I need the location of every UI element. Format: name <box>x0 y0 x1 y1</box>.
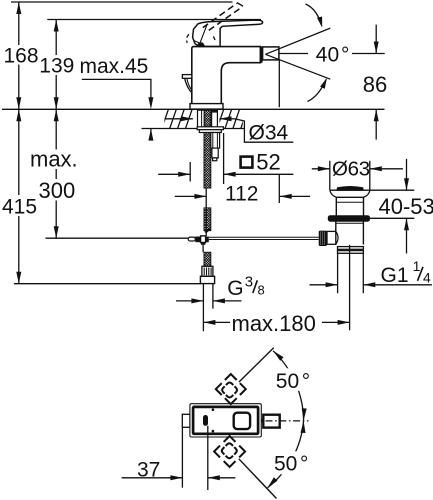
svg-text:112: 112 <box>225 182 258 205</box>
lever handle <box>193 20 263 46</box>
lever raised (dashed) <box>203 3 243 30</box>
dimension 139 / max300 line <box>55 20 57 56</box>
top view: screw dots <box>212 408 215 411</box>
drain flange <box>330 189 370 191</box>
dimension 168 line <box>18 2 20 45</box>
svg-text:Ø63: Ø63 <box>332 158 370 181</box>
top view: left tab <box>182 414 190 427</box>
drain body below seal <box>335 221 337 244</box>
reference line (139) <box>47 19 261 21</box>
hose braid lower <box>204 252 211 266</box>
svg-text:52: 52 <box>256 150 280 175</box>
hose braid mid <box>204 208 211 231</box>
arrowheads max300 <box>54 109 59 121</box>
drain body cylinder <box>335 197 337 216</box>
mounting shank hose (crosshatch) <box>204 110 211 127</box>
top view: lever pin <box>203 415 208 426</box>
svg-text:3: 3 <box>245 274 253 291</box>
fraction slashes <box>253 267 423 293</box>
dimension max180 <box>203 320 215 325</box>
deck hatching <box>146 109 247 128</box>
supply hose axis line <box>205 188 207 236</box>
top view: body outer <box>190 404 261 437</box>
50deg arc lower <box>268 421 304 488</box>
rod line below tee <box>202 245 204 252</box>
max300 bottom ref line <box>46 237 189 239</box>
deck bottom line <box>142 128 245 130</box>
svg-text:max.180: max.180 <box>232 311 316 336</box>
415 bottom ref line <box>14 283 201 285</box>
hose end fitting (ribbed) <box>202 266 213 276</box>
svg-text:168: 168 <box>4 45 39 68</box>
drain: O63 extension lines <box>329 161 331 190</box>
aerator reference line down <box>278 60 280 107</box>
horizontal pop-up rod to drain <box>209 236 319 238</box>
rod bend piece <box>205 229 210 233</box>
svg-text:40-53: 40-53 <box>379 194 433 219</box>
pop-up tee: blocks <box>195 237 200 243</box>
50deg line lower <box>239 459 277 499</box>
max.45 leader <box>82 79 151 100</box>
svg-text:Ø34: Ø34 <box>249 122 289 145</box>
svg-text:max.45: max.45 <box>80 55 149 78</box>
top view: aerator square <box>234 413 250 429</box>
pop-up tee: pill <box>188 237 195 241</box>
G3/8 tube <box>202 284 204 332</box>
nut <box>199 130 221 133</box>
pop-up rod guide blocks <box>211 133 220 149</box>
svg-text:86: 86 <box>363 72 387 97</box>
arrowheads 415 <box>16 109 21 121</box>
svg-text:415: 415 <box>2 195 37 218</box>
drain knurled knob <box>319 231 327 246</box>
handle position diamond upper inner <box>222 383 237 398</box>
dimension O34 <box>166 118 193 120</box>
svg-text:37: 37 <box>137 459 160 482</box>
spout centerline <box>279 53 308 55</box>
arrowheads max45 <box>148 97 153 109</box>
right mounting bolt <box>212 110 218 128</box>
lever hub crease <box>200 25 207 42</box>
svg-text:1: 1 <box>413 258 421 274</box>
dimension 37 extension lines <box>181 427 183 487</box>
aerator box <box>263 47 279 60</box>
dimension 415 line <box>18 109 20 195</box>
50deg arc upper <box>273 351 304 421</box>
50deg line upper <box>239 348 274 382</box>
svg-text:G: G <box>227 277 243 300</box>
svg-text:°: ° <box>341 44 349 67</box>
spout tip dark band <box>260 47 263 63</box>
hose braid below deck <box>204 133 211 189</box>
svg-text:max.: max. <box>30 147 78 172</box>
square symbol <box>241 157 253 168</box>
arrowheads 139 <box>54 20 59 32</box>
svg-text:°: ° <box>302 370 310 393</box>
faucet body outline <box>192 47 261 104</box>
left mounting bolt <box>198 110 205 128</box>
drain tailpipe <box>337 253 339 293</box>
handle position diamond lower inner <box>222 443 237 458</box>
base plate <box>190 104 223 110</box>
svg-text:40: 40 <box>316 44 339 67</box>
pop-up rod knob on body <box>182 75 191 79</box>
top view: spout stub <box>262 419 264 422</box>
halo behind 50deg labels <box>274 368 311 391</box>
dimension 37 <box>122 477 183 479</box>
dimension O63 <box>312 168 330 170</box>
dimension 86 <box>375 25 377 54</box>
deck top line <box>2 108 385 110</box>
svg-text:G1: G1 <box>381 264 409 287</box>
dimension G1 1/4 <box>310 284 338 286</box>
dimension 112 <box>175 195 207 197</box>
arrowheads 168 <box>16 2 21 14</box>
svg-text:°: ° <box>300 453 308 476</box>
drain plug (dark lens) <box>337 187 363 191</box>
svg-text:300: 300 <box>39 178 76 203</box>
spray cone lines 40deg <box>265 28 330 54</box>
lever hub dark wedge <box>197 42 206 46</box>
svg-text:139: 139 <box>39 55 74 78</box>
top view: centerline <box>266 420 309 422</box>
drain seal ring <box>328 216 369 222</box>
dimension G3/8 arrows <box>176 300 203 302</box>
handle position diamond upper outer <box>216 374 246 404</box>
G3/8 nut <box>200 276 214 283</box>
drain grooved collar <box>338 247 364 250</box>
svg-text:8: 8 <box>258 283 265 298</box>
washer <box>197 127 223 130</box>
dimension 40-53 <box>370 189 414 191</box>
handle position diamond lower outer <box>214 436 245 467</box>
dimension square 52 <box>158 173 190 175</box>
top view: body inner border <box>193 407 258 434</box>
svg-text:50: 50 <box>276 370 299 393</box>
svg-text:4: 4 <box>423 270 431 286</box>
drain side connection cylinder <box>327 231 336 244</box>
top reference line (168) <box>11 1 233 3</box>
40deg arc arrows <box>306 4 322 26</box>
svg-text:50: 50 <box>274 453 297 476</box>
